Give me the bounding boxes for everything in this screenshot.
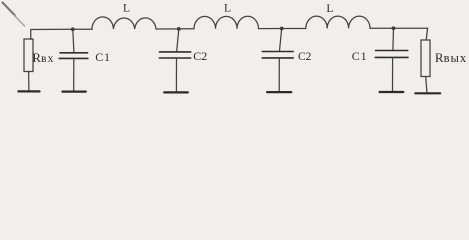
inductor L2 bbox=[194, 16, 259, 28]
capacitor C2 second plates bbox=[262, 51, 293, 53]
resistor Rvx body bbox=[24, 39, 33, 72]
ground (Rvx) bbox=[18, 90, 39, 92]
ground (Rvyh) bbox=[415, 92, 440, 94]
wire bbox=[156, 28, 179, 30]
resistor Rvyh body bbox=[421, 40, 430, 77]
ground (C2 first) bbox=[164, 91, 188, 93]
capacitor C1 right top lead bbox=[392, 28, 395, 50]
wire output corner bbox=[394, 28, 428, 40]
wire Rvx bottom lead bbox=[28, 72, 30, 91]
svg-text:Rвх: Rвх bbox=[32, 50, 54, 65]
node B (C2 first junction) bbox=[177, 27, 181, 31]
svg-text:Rвых: Rвых bbox=[435, 50, 467, 65]
svg-text:L: L bbox=[123, 3, 130, 15]
svg-text:C2: C2 bbox=[193, 49, 207, 63]
svg-text:C1: C1 bbox=[95, 50, 111, 64]
wire bbox=[282, 28, 306, 30]
wire bbox=[73, 28, 92, 30]
node C (C2 second junction) bbox=[280, 27, 284, 31]
capacitor C2 first bottom lead bbox=[175, 59, 177, 92]
ground (C1 right) bbox=[380, 91, 404, 93]
wire bbox=[370, 27, 394, 29]
capacitor C1 left bottom lead bbox=[73, 59, 75, 91]
wire bbox=[179, 28, 194, 30]
wire bbox=[259, 28, 282, 30]
wire input corner bbox=[31, 29, 73, 39]
wire Rvyh bottom lead bbox=[426, 77, 427, 93]
node D (C1 right junction) bbox=[392, 26, 396, 30]
capacitor C2 second bottom lead bbox=[278, 58, 280, 91]
inductor L3 bbox=[306, 16, 370, 28]
capacitor C2 first top lead bbox=[177, 29, 179, 51]
ground (C1 left) bbox=[62, 90, 85, 92]
capacitor C1 right plates bbox=[376, 50, 408, 52]
inductor L1 bbox=[92, 17, 156, 29]
capacitor C2 second top lead bbox=[280, 29, 282, 51]
capacitor C2 first plates bbox=[159, 51, 190, 53]
ground (C2 second) bbox=[267, 91, 291, 93]
svg-text:L: L bbox=[326, 3, 333, 15]
node A (C1 left junction) bbox=[71, 27, 75, 31]
svg-text:L: L bbox=[224, 2, 231, 14]
capacitor C1 left top lead bbox=[73, 29, 74, 52]
svg-text:C2: C2 bbox=[298, 51, 312, 63]
capacitor C1 left plates bbox=[60, 52, 88, 54]
capacitor C1 right bottom lead bbox=[392, 58, 394, 91]
svg-text:C1: C1 bbox=[352, 49, 368, 63]
